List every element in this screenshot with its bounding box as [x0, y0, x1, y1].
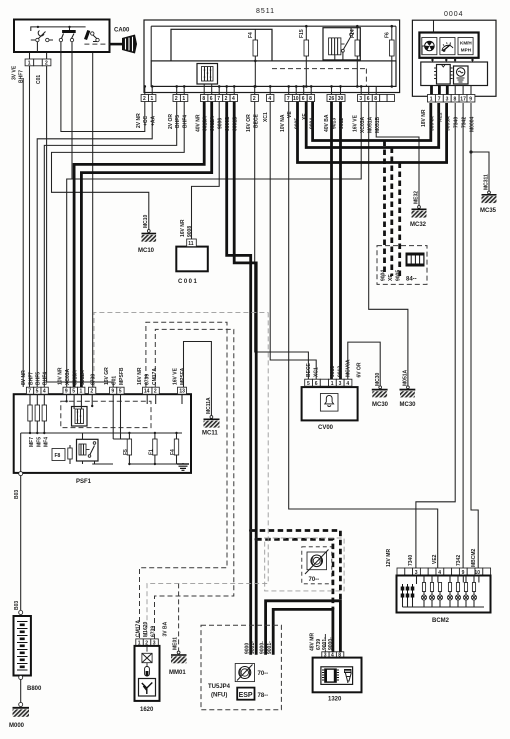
CV00 pins 5 6 1 3 4 [305, 379, 313, 386]
svg-text:XE: XE [388, 274, 394, 281]
svg-text:M1620: M1620 [143, 621, 149, 637]
svg-text:6: 6 [302, 96, 305, 102]
ignition switch CA00 [14, 20, 110, 53]
fuse F4 [248, 29, 258, 86]
ESP label box [237, 688, 254, 700]
svg-text:PSF1: PSF1 [76, 479, 92, 485]
svg-text:6739: 6739 [145, 374, 151, 385]
PSF1 pins 14 2 [143, 387, 153, 394]
key symbol CA00 [110, 28, 138, 54]
wire thick 9012 8511 pin30 to CV00 pin3 [339, 102, 342, 380]
8511 connector pin rows [136, 95, 395, 134]
svg-text:CM17A: CM17A [136, 620, 142, 637]
electronics board 0004 [421, 62, 488, 86]
svg-text:6: 6 [315, 381, 318, 387]
BCM2 fuse elements [401, 584, 415, 600]
wire M0004 0004 pin9 to BCM2 pin10 [471, 103, 478, 568]
wire +AA BHF5 8511 to PSF1 [37, 102, 152, 388]
svg-text:BHF4: BHF4 [183, 115, 189, 128]
svg-text:MPH: MPH [461, 48, 472, 53]
pins 2 1 +CC +AA [141, 95, 148, 102]
svg-text:9005: 9005 [396, 270, 402, 281]
wire battery B800 to ground M000 [20, 680, 22, 703]
wire M051A 8511 to ground MC30 [369, 102, 408, 387]
svg-text:F1: F1 [149, 449, 155, 455]
wire dashed 6739 PSF1 to 1620 pin3 [155, 329, 234, 639]
svg-text:26: 26 [329, 96, 335, 102]
wire BECE 8511 to CV00 pin5 [255, 102, 309, 380]
ground MC32 [410, 191, 427, 228]
svg-text:BECE: BECE [306, 362, 312, 377]
svg-text:3V VE: 3V VE [12, 65, 18, 80]
svg-text:2V NR: 2V NR [136, 113, 142, 128]
svg-text:MC30: MC30 [375, 372, 381, 386]
svg-text:CV00: CV00 [318, 425, 334, 431]
svg-text:9008: 9008 [187, 226, 193, 237]
node junction 9000 bolddash [249, 529, 252, 532]
plug symbol 1620 [145, 667, 150, 677]
svg-text:9006: 9006 [218, 118, 224, 129]
wire thick 9004A 0004 pin1 to shielded 84 [313, 102, 431, 141]
svg-text:2: 2 [175, 96, 178, 102]
svg-text:F14: F14 [350, 29, 356, 38]
engine variant box TU5JP4 [201, 625, 281, 710]
svg-text:BHF5: BHF5 [175, 115, 181, 128]
relay PSF1 [77, 439, 99, 461]
wire CA00 third contact to PSF1 6739 [92, 52, 94, 387]
svg-text:BHF7: BHF7 [19, 70, 25, 83]
pin 4 XC1 [267, 95, 274, 102]
svg-text:8511: 8511 [256, 8, 275, 15]
ground MC11A [202, 397, 220, 437]
svg-text:2: 2 [225, 96, 228, 102]
svg-text:7: 7 [217, 96, 220, 102]
0004 connector pins 1 7 3 8 17 9 [428, 95, 436, 103]
wire bold dashed 9000 option 70 [251, 531, 341, 601]
svg-text:8: 8 [454, 96, 457, 102]
svg-text:1: 1 [151, 96, 154, 102]
svg-text:MM01: MM01 [169, 670, 186, 676]
svg-text:9000-: 9000- [260, 641, 266, 654]
wire M0004 branch to ground MC35 [471, 152, 489, 191]
svg-text:BHF5: BHF5 [36, 372, 42, 385]
svg-text:9005A: 9005A [446, 116, 452, 131]
svg-text:16V VE: 16V VE [173, 367, 179, 385]
svg-text:CA00: CA00 [114, 28, 130, 34]
svg-text:XC03A: XC03A [360, 116, 366, 133]
wire dashed MPSFB PSF1 [94, 312, 268, 387]
svg-text:9012A: 9012A [80, 370, 86, 385]
svg-text:6: 6 [210, 96, 213, 102]
svg-text:9000-: 9000- [328, 637, 334, 650]
svg-text:1: 1 [331, 381, 334, 387]
svg-text:MF7: MF7 [29, 437, 35, 447]
svg-text:C001: C001 [178, 279, 198, 285]
fuse MF4 [43, 394, 45, 405]
svg-text:6V OR: 6V OR [357, 362, 363, 377]
svg-text:7: 7 [287, 96, 290, 102]
svg-text:MC10: MC10 [138, 248, 155, 254]
svg-text:11: 11 [188, 241, 194, 247]
wire XC1 8511 to CV00 pin6 [270, 102, 316, 380]
svg-text:F4: F4 [170, 449, 176, 455]
body control module BCM2 [386, 548, 491, 624]
wire bold dashed 9001 option 70 [256, 539, 333, 609]
fuse F4 PSF1 [176, 433, 178, 439]
svg-text:1: 1 [430, 96, 433, 102]
svg-text:1: 1 [80, 389, 83, 395]
svg-text:XC1: XC1 [263, 112, 269, 122]
wire BHF4 8511 to MC10 [52, 102, 185, 230]
socket symbol 1620 [139, 679, 156, 697]
wire MM01 1620 ground dashed [178, 583, 180, 651]
junction dots 8511 [144, 25, 394, 88]
svg-text:18V NR: 18V NR [421, 109, 427, 127]
svg-text:1620: 1620 [140, 707, 154, 713]
injector symbol 1320 [345, 670, 352, 673]
svg-text:XC1: XC1 [314, 367, 320, 377]
pins 2 1 BHF5 BHF4 [173, 95, 180, 102]
PSF1 internal connector [72, 407, 88, 427]
cigar lighter 1620 [135, 620, 160, 713]
wire thick 9013 8511 pin26 to CV00 pin1 [330, 102, 333, 380]
svg-text:MF4: MF4 [43, 437, 49, 447]
BCM2 lamp outputs [421, 583, 476, 601]
wire BHF7 CA00 pin1 to PSF1 [29, 52, 31, 387]
svg-text:16V NR: 16V NR [180, 219, 186, 237]
IC chip 1320 [321, 667, 353, 685]
pins 26 30 40V BA [327, 95, 336, 102]
fuse box PSF1 [14, 367, 191, 499]
relay inside 8511 [323, 28, 360, 61]
fuse F6 [385, 26, 395, 86]
contact 1 [39, 32, 46, 39]
svg-text:F6: F6 [385, 32, 391, 38]
svg-text:9001-: 9001- [322, 637, 328, 650]
svg-text:2: 2 [253, 96, 256, 102]
wire thick 9001D 8511 to TU5JP4 stub [234, 102, 256, 655]
svg-text:9013A: 9013A [203, 116, 209, 131]
svg-text:9004A: 9004A [430, 116, 436, 131]
pin 2 BECE [251, 95, 258, 102]
ground MC35 [480, 174, 497, 214]
svg-text:30: 30 [338, 96, 344, 102]
svg-text:1320: 1320 [328, 697, 342, 703]
svg-text:C01: C01 [36, 75, 42, 84]
svg-text:2: 2 [90, 389, 93, 395]
svg-text:6739: 6739 [151, 626, 157, 637]
svg-text:MC10: MC10 [143, 214, 149, 228]
svg-text:13: 13 [179, 389, 185, 395]
svg-text:ESP: ESP [239, 692, 253, 699]
fuse F5 [128, 433, 130, 439]
wire shielded dashed 9004 to 84 [383, 141, 386, 277]
svg-text:C01: C01 [112, 376, 118, 385]
wire +CC 8511 to CA00 [61, 52, 145, 132]
svg-text:9001-: 9001- [267, 641, 273, 654]
others [9, 174, 497, 729]
stepper motor 0004 [454, 66, 469, 84]
svg-text:78--: 78-- [258, 693, 269, 699]
svg-text:70--: 70-- [258, 671, 269, 677]
wire thick 9012A 8511 pin6 to PSF1 [81, 102, 211, 388]
svg-text:MPSFB: MPSFB [119, 367, 125, 385]
horn CV00 [302, 359, 363, 431]
svg-text:16V NR: 16V NR [137, 367, 143, 385]
svg-text:3: 3 [359, 96, 362, 102]
svg-text:5: 5 [119, 389, 122, 395]
svg-text:MC30: MC30 [372, 402, 389, 408]
svg-text:16V OR: 16V OR [246, 114, 252, 132]
wire MCV0A CV00 pin4 to ground MC30 [348, 342, 380, 386]
svg-text:4: 4 [268, 96, 271, 102]
IC chip 0004 [437, 65, 451, 85]
svg-text:1: 1 [28, 61, 31, 67]
svg-text:BHF7: BHF7 [29, 372, 35, 385]
wire M051B 8511 to ground MC32 [376, 102, 419, 206]
wire thick 9000 stub horizontal to 1320 [266, 601, 341, 655]
wire 9008 8511 to C001 pin11 [192, 102, 220, 240]
svg-text:8V NR: 8V NR [21, 370, 27, 385]
svg-text:7: 7 [28, 389, 31, 395]
instrument cluster 0004 [412, 11, 496, 132]
svg-text:16V VE: 16V VE [353, 114, 359, 132]
svg-text:MC11: MC11 [202, 431, 218, 437]
svg-text:7342: 7342 [456, 555, 462, 566]
svg-text:BCM2: BCM2 [432, 618, 450, 624]
speed unit icon KM/H MPH [458, 38, 473, 55]
BSI unit 8511 [144, 8, 400, 95]
svg-text:9013A: 9013A [73, 370, 79, 385]
junction box C001 [176, 219, 208, 285]
svg-text:70--: 70-- [309, 577, 320, 583]
svg-text:+AA: +AA [151, 115, 157, 126]
svg-text:MC32: MC32 [410, 222, 427, 228]
svg-text:14: 14 [144, 389, 150, 395]
ground MC10 [138, 214, 156, 254]
connector C01 pins [12, 59, 51, 84]
svg-text:8: 8 [309, 96, 312, 102]
svg-text:9: 9 [111, 389, 114, 395]
lamp symbol 1620 [146, 647, 148, 667]
svg-text:XE: XE [302, 113, 308, 120]
svg-text:M0004: M0004 [470, 116, 476, 132]
svg-text:10V NA: 10V NA [280, 114, 286, 132]
svg-text:CM17A: CM17A [152, 368, 158, 385]
fuse F8 [52, 449, 65, 461]
svg-text:5: 5 [307, 381, 310, 387]
svg-text:3V BA: 3V BA [163, 621, 169, 636]
svg-text:XC03A: XC03A [65, 368, 71, 385]
fan telltale icon [422, 38, 437, 55]
ground MC30 right M051A [400, 369, 417, 408]
stubs from 8511 pins to bus [145, 84, 376, 95]
svg-text:2: 2 [45, 61, 48, 67]
fuse F14 [350, 26, 360, 86]
pins 3 6 8 16V VE [358, 95, 365, 102]
svg-text:9012: 9012 [338, 366, 344, 377]
svg-text:9012A: 9012A [210, 116, 216, 131]
svg-text:4: 4 [43, 389, 46, 395]
wire 7342 0004 pin17 to BCM2 pin9 [462, 103, 464, 568]
gauge icon [440, 38, 455, 55]
svg-text:7342: 7342 [462, 117, 468, 128]
svg-text:9013: 9013 [330, 366, 336, 377]
svg-text:12V MR: 12V MR [386, 549, 392, 567]
node M0004 junction [469, 150, 472, 153]
wire 6739 stub 1320 [324, 634, 326, 652]
svg-text:40V NR: 40V NR [196, 114, 202, 132]
ground MC30 left [372, 372, 389, 408]
svg-text:M051A: M051A [402, 369, 408, 386]
svg-text:4: 4 [232, 96, 235, 102]
svg-text:10V NR: 10V NR [58, 367, 64, 385]
svg-text:9001-: 9001- [250, 641, 256, 654]
svg-text:7340: 7340 [408, 555, 414, 566]
fuse MF7 [29, 394, 31, 405]
svg-text:MF5: MF5 [36, 437, 42, 447]
wire XC03A long horizontal CA00 8511 PSF1 [67, 102, 362, 388]
svg-text:BHF4: BHF4 [43, 372, 49, 385]
svg-text:+CC: +CC [143, 115, 149, 126]
wire VE2 8511 pin7 to BCM2 pin4 [289, 102, 438, 569]
svg-text:2: 2 [154, 389, 157, 395]
svg-text:MPSFA: MPSFA [180, 367, 186, 385]
svg-text:KM/H: KM/H [460, 41, 472, 46]
wire MPSFA PSF1 pin13 to ground MC11A [184, 342, 212, 416]
ASR telltale icon [235, 664, 254, 682]
dashed line inside 8511 [272, 69, 366, 87]
svg-text:VE2: VE2 [432, 554, 438, 564]
svg-text:TU5JP4: TU5JP4 [208, 684, 231, 690]
PSF1 inner bus [21, 394, 182, 471]
ground M000 [9, 703, 29, 730]
svg-text:5: 5 [72, 389, 75, 395]
svg-text:BECE: BECE [254, 113, 260, 128]
svg-text:1: 1 [182, 96, 185, 102]
display panel [419, 33, 478, 58]
connector symbol inside 8511 [197, 64, 218, 85]
svg-text:8: 8 [374, 96, 377, 102]
wire thick 9000D 8511 to TU5JP4 stub [227, 102, 251, 655]
terminal circle B03 [19, 472, 23, 476]
svg-text:10: 10 [293, 96, 299, 102]
svg-text:3: 3 [339, 381, 342, 387]
svg-text:17: 17 [460, 96, 466, 102]
svg-text:M051B: M051B [375, 116, 381, 133]
wire thick 9001 stub horizontal to 1320 [273, 609, 333, 654]
wire 3V VE CA00 [22, 78, 24, 387]
wire thick 9005A 0004 pin3 [298, 102, 447, 163]
svg-text:ME01: ME01 [173, 637, 179, 650]
wire dashed interconnection to 1620 pin2 [147, 312, 268, 639]
shielding box 84 [377, 246, 427, 285]
svg-text:9013: 9013 [332, 118, 338, 129]
svg-text:7340: 7340 [454, 117, 460, 128]
svg-text:3: 3 [446, 96, 449, 102]
svg-text:9001D: 9001D [233, 116, 239, 131]
svg-text:7: 7 [438, 96, 441, 102]
svg-text:VE: VE [287, 111, 293, 118]
svg-text:9005: 9005 [295, 118, 301, 129]
svg-text:MC35: MC35 [480, 208, 497, 214]
svg-text:(NFU): (NFU) [211, 693, 227, 699]
svg-text:0004: 0004 [444, 11, 464, 18]
wire shielded dashed 9005 to 84 [398, 163, 401, 277]
PSF1 internal dashed box [61, 401, 151, 427]
svg-text:16V GR: 16V GR [104, 367, 110, 385]
PSF1 pins 7 5 4 [26, 387, 33, 394]
svg-text:F4: F4 [248, 32, 254, 38]
thick wires chip to pins [432, 86, 448, 95]
PSF1 pin 13 [178, 387, 187, 394]
svg-text:MC30: MC30 [400, 402, 417, 408]
svg-text:MC311: MC311 [484, 174, 490, 190]
svg-text:9012: 9012 [339, 118, 345, 129]
svg-text:F5: F5 [123, 449, 129, 455]
svg-text:9000D: 9000D [225, 116, 231, 131]
ground MM01 [163, 621, 187, 676]
svg-text:9004: 9004 [381, 270, 387, 281]
dashed link to key [84, 43, 109, 45]
wire thick 9013A 8511 pin8 to PSF1 [74, 102, 204, 388]
svg-text:5: 5 [36, 389, 39, 395]
svg-text:8: 8 [202, 96, 205, 102]
wire C01 CA00 pin2 to PSF1 [47, 52, 114, 387]
PSF1 pins 9 5 1 2 [63, 387, 70, 394]
svg-text:MBCM2: MBCM2 [471, 548, 477, 567]
battery B800 [14, 601, 43, 692]
fuse F1 [154, 433, 156, 439]
svg-text:84--: 84-- [406, 277, 417, 283]
svg-text:XE1: XE1 [438, 112, 444, 122]
svg-text:B03: B03 [14, 601, 20, 610]
svg-text:F8: F8 [55, 453, 61, 459]
svg-text:F15: F15 [299, 29, 305, 38]
wire BHF5 8511 to PSF1 [44, 102, 176, 388]
wire XC03A CA00 branch [71, 52, 73, 179]
wire shielded dashed XE to 84 [390, 148, 393, 277]
wire dashed CM17A PSF1 to 1620 pin1 [140, 322, 228, 639]
fuse F15 [299, 26, 309, 86]
pins 7 10 6 8 10V NA [285, 95, 292, 102]
svg-text:40V BA: 40V BA [324, 114, 330, 132]
svg-text:MCV0A: MCV0A [346, 359, 352, 377]
svg-text:48V MR: 48V MR [310, 633, 316, 651]
svg-text:6739: 6739 [91, 374, 97, 385]
svg-text:9: 9 [65, 389, 68, 395]
contact 2 [62, 30, 76, 33]
svg-text:M051A: M051A [368, 116, 374, 133]
ECU 1320 [310, 633, 362, 703]
wire thick XE1 0004 pin7 [306, 102, 439, 148]
node junction 9001 bolddash [255, 538, 258, 541]
svg-text:ME32: ME32 [414, 191, 420, 204]
ground symbol inside PSF1 [177, 463, 189, 470]
svg-text:9004: 9004 [310, 118, 316, 129]
contact 3 [86, 31, 89, 40]
svg-text:2: 2 [143, 96, 146, 102]
wire 7340 0004 pin8 to BCM2 pin3 [416, 103, 455, 568]
svg-text:4: 4 [346, 381, 349, 387]
pins 8 6 7 2 4 40V NR [201, 95, 208, 102]
svg-text:9: 9 [469, 96, 472, 102]
svg-text:MC11A: MC11A [206, 397, 212, 414]
option 70 telltale upper [265, 538, 344, 591]
wire B03 PSF1 to battery B800 [20, 476, 22, 611]
svg-text:2V OR: 2V OR [168, 114, 174, 129]
PSF1 pins 9 5 16V GR [110, 387, 117, 394]
